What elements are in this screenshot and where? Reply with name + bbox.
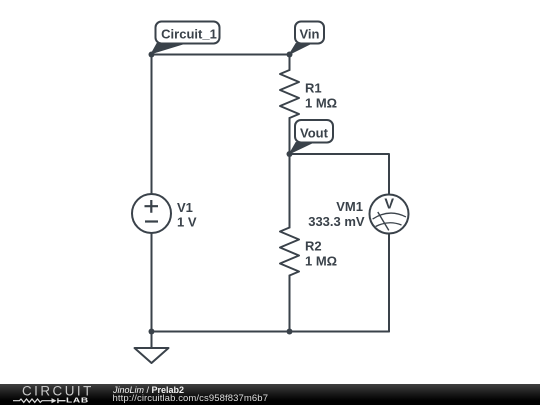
node flag Vout box [295, 120, 333, 143]
svg-text:Vout: Vout [300, 125, 329, 140]
voltage source V1 circle [132, 194, 171, 233]
wire VM1 bottom to ground rail [388, 234, 390, 332]
VM1 needle [378, 212, 389, 230]
wire Vout node to R2 top [289, 154, 291, 228]
resistor R1 [280, 70, 299, 118]
V1 plus sign [145, 200, 159, 213]
footer title line [113, 386, 184, 395]
svg-text:V: V [384, 197, 394, 213]
svg-text:Vin: Vin [300, 26, 320, 41]
logo resistor zigzag [13, 399, 52, 402]
voltmeter VM1 circle [370, 195, 409, 234]
svg-text:1 MΩ: 1 MΩ [305, 254, 337, 269]
ground symbol triangle [135, 348, 169, 363]
node flag Circuit_1 box [156, 22, 220, 44]
svg-text:VM1: VM1 [336, 199, 363, 214]
node flag Vin tail [289, 44, 311, 55]
svg-text:1 V: 1 V [177, 215, 197, 230]
VM1 meter arcs [373, 213, 406, 226]
svg-text:LAB: LAB [66, 396, 89, 404]
svg-text:333.3 mV: 333.3 mV [308, 214, 365, 229]
footer bar [0, 384, 540, 405]
wire top horizontal Circuit_1 to Vin [152, 54, 290, 56]
svg-text:R2: R2 [305, 239, 322, 254]
node dot Vin [287, 52, 293, 58]
ground stem [151, 332, 153, 349]
wire V1 bottom to ground rail [151, 234, 153, 332]
V1 minus sign [145, 220, 158, 222]
logo diode [52, 398, 57, 403]
wire R2 bottom to ground rail [289, 276, 291, 332]
node flag Vout tail [290, 143, 314, 154]
wire Vin node to R1 top [289, 55, 291, 71]
wire left vertical top node to V1 [151, 55, 153, 195]
svg-text:V1: V1 [177, 200, 193, 215]
wire bottom ground rail [152, 331, 390, 333]
node dot Circuit_1 [149, 52, 155, 58]
node dot Vout [287, 151, 293, 157]
node flag Vin box [295, 22, 324, 44]
node dot ground rail middle [287, 329, 293, 335]
node dot ground rail left [149, 329, 155, 335]
footer url line [113, 394, 269, 404]
svg-text:Circuit_1: Circuit_1 [161, 26, 217, 41]
node flag Circuit_1 tail [151, 44, 184, 54]
CircuitLab logo [0, 384, 110, 405]
resistor R2 [280, 228, 299, 276]
wire Vout node to VM1 top (horizontal + vertical) [290, 154, 390, 195]
wire R1 bottom to Vout node [289, 118, 291, 154]
svg-text:1 MΩ: 1 MΩ [305, 95, 337, 110]
svg-text:R1: R1 [305, 80, 322, 95]
